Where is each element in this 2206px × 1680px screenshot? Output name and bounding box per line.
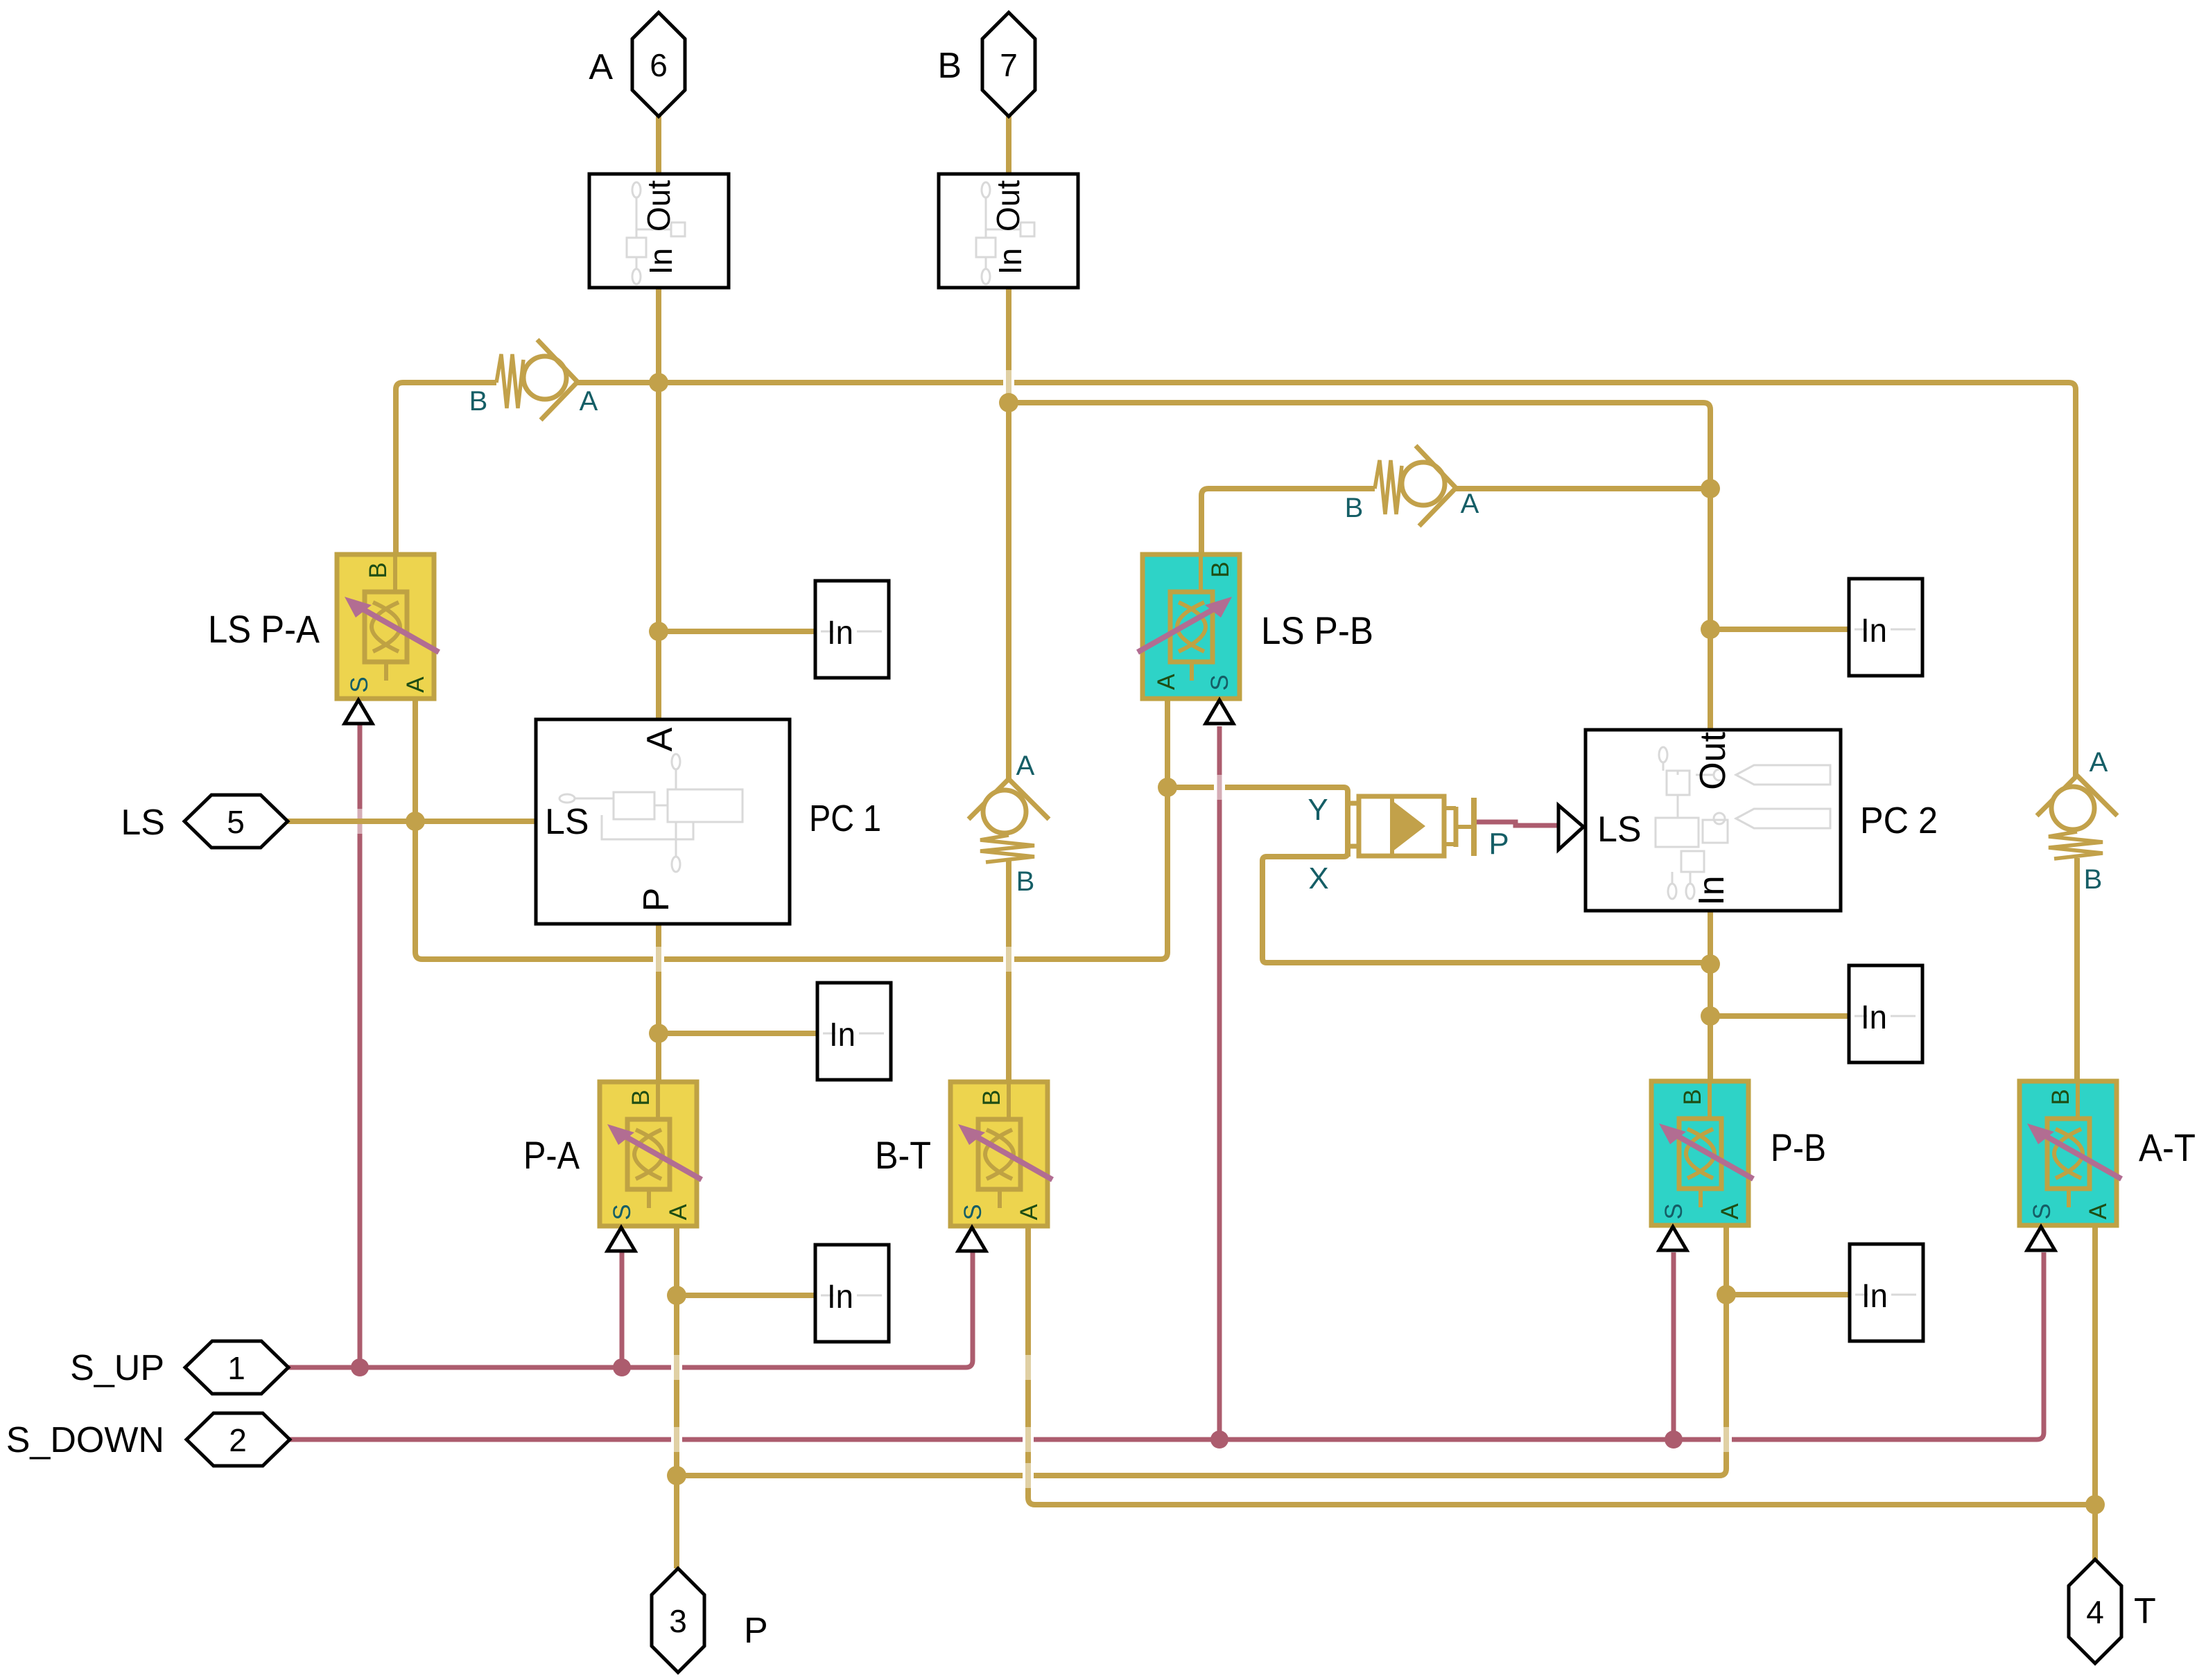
wire LS P-A B riser with corner to check valve CV1 (396, 383, 496, 554)
wire B line (sensor B down to check valve CV3) (1006, 286, 1011, 780)
junction node LS P-B A to shuttle Y (1158, 778, 1177, 797)
wire crossover fades (354, 370, 1732, 1488)
wire A-T A down to port 4 (2092, 1225, 2098, 1561)
svg-text:B: B (1207, 561, 1234, 577)
svg-text:PC 1: PC 1 (809, 798, 881, 839)
svg-text:B: B (469, 386, 488, 417)
pressure compensator PC 1 (536, 719, 881, 924)
wire node to sensor In box R2 (1710, 1013, 1849, 1019)
valve block LS P-A (208, 554, 439, 724)
wire top A rail to A-T B (right side) (574, 383, 2076, 777)
signal wire S_UP rail to B-T S (287, 1252, 973, 1367)
In box L1 (815, 581, 889, 678)
svg-text:P: P (1488, 827, 1509, 861)
junction node A line to In box L1 (649, 622, 668, 641)
junction node S_UP at P-A S riser (613, 1358, 631, 1376)
valve block P-A (523, 1082, 702, 1251)
junction node PC2 riser to In box R1 (1701, 620, 1720, 639)
port 6 (A) (589, 12, 685, 116)
svg-text:S: S (959, 1204, 987, 1220)
signal wire LS P-B S riser (1217, 726, 1222, 1441)
In box R3 (1850, 1244, 1923, 1341)
port 1 (S_UP) (70, 1341, 288, 1394)
svg-text:A-T: A-T (2139, 1126, 2196, 1169)
svg-text:A: A (1016, 751, 1035, 781)
wire node to sensor In box L2 (659, 1031, 817, 1036)
check valve CV2 (B-A, mid right) (1345, 446, 1479, 526)
svg-text:B: B (2084, 864, 2103, 895)
junction node B line to PC2 rail (999, 393, 1018, 412)
junction node P rail at port 3 riser (667, 1466, 686, 1485)
svg-text:2: 2 (229, 1422, 247, 1458)
svg-text:In: In (1861, 1278, 1888, 1315)
svg-text:A: A (1153, 674, 1180, 690)
svg-text:In: In (643, 248, 679, 274)
junction node X loop on P riser (1701, 954, 1720, 974)
sensor block A (In/Out) (589, 174, 729, 288)
svg-text:A: A (2090, 747, 2108, 778)
wire LS port 5 to PC1 LS (286, 819, 537, 824)
signal wire S_DOWN rail to A-T S (288, 1252, 2044, 1440)
wire node A to sensor In box L1 (659, 629, 815, 634)
junction node A rail / CV1 (649, 373, 668, 392)
signal wire LS P-A S riser (358, 722, 363, 1369)
svg-text:LS P-A: LS P-A (208, 607, 320, 651)
svg-text:Out: Out (1693, 732, 1733, 790)
svg-text:B: B (627, 1090, 654, 1105)
svg-text:P-B: P-B (1771, 1126, 1826, 1169)
svg-text:LS P-B: LS P-B (1261, 609, 1373, 652)
junction node S_UP at LS P-A S riser (351, 1358, 369, 1376)
valve block B-T (875, 1082, 1052, 1251)
svg-text:6: 6 (650, 47, 668, 83)
svg-text:B: B (365, 562, 392, 578)
svg-text:A: A (1717, 1203, 1744, 1220)
shuttle valve (X/Y to P) (1308, 793, 1509, 895)
svg-text:S_UP: S_UP (70, 1348, 164, 1388)
svg-text:B-T: B-T (875, 1133, 931, 1177)
port 5 (LS) (121, 795, 288, 848)
svg-text:T: T (2134, 1591, 2156, 1631)
check valve CV4 (right side) (2037, 747, 2117, 895)
wire P-A A down to port 3 (674, 1225, 679, 1568)
svg-text:B: B (1679, 1089, 1706, 1105)
svg-text:In: In (829, 1017, 856, 1053)
svg-text:A: A (580, 386, 598, 417)
svg-text:S: S (2029, 1203, 2056, 1219)
port 4 (T) (2069, 1559, 2156, 1663)
svg-text:In: In (992, 248, 1028, 274)
wire CV2 A side to node (1454, 486, 1710, 491)
junction node T rail at port 4 riser (2085, 1495, 2105, 1514)
svg-text:LS: LS (545, 802, 589, 842)
wire A line (sensor A down to PC1 port A) (656, 286, 661, 721)
PS arrowhead into PC2 LS (1558, 805, 1583, 850)
wire shuttle X loop to P riser node (1262, 852, 1710, 963)
port 3 (P) (652, 1568, 768, 1672)
svg-text:A: A (1461, 489, 1479, 519)
wire P-B A down to P rail (677, 1225, 1726, 1476)
svg-text:B: B (978, 1090, 1005, 1105)
svg-text:5: 5 (227, 804, 245, 840)
wire node to sensor In box R1 (1710, 627, 1849, 632)
svg-text:S: S (1206, 674, 1233, 690)
wire PC1 P to P-A B (656, 922, 661, 1083)
svg-text:In: In (1692, 875, 1732, 905)
svg-text:P-A: P-A (523, 1133, 580, 1177)
junction node LS rail at LS P-A A riser (406, 812, 425, 831)
wire B node rail to PC2 Out (1009, 403, 1710, 728)
pressure compensator PC 2 (1586, 730, 1938, 911)
svg-text:A: A (2085, 1203, 2112, 1220)
junction node S_DOWN at LS P-B S riser (1210, 1430, 1228, 1449)
In box R2 (1849, 965, 1922, 1062)
svg-text:In: In (1861, 613, 1887, 649)
In box L2 (817, 983, 891, 1080)
svg-text:3: 3 (669, 1603, 687, 1639)
svg-text:B: B (1016, 866, 1035, 897)
svg-text:Out: Out (641, 180, 677, 231)
port 7 (B) (937, 12, 1035, 116)
signal wire P-A S riser (620, 1252, 625, 1369)
svg-text:LS: LS (1597, 810, 1642, 850)
svg-text:In: In (827, 615, 853, 651)
valve block A-T (2020, 1081, 2196, 1250)
svg-text:S_DOWN: S_DOWN (6, 1420, 164, 1460)
junction node P-A B line to In box L2 (649, 1024, 668, 1043)
valve block P-B (1651, 1081, 1826, 1250)
svg-text:S: S (1660, 1203, 1687, 1219)
svg-text:X: X (1308, 861, 1328, 895)
junction node P-A A line to In box L3 (667, 1286, 686, 1305)
svg-text:Out: Out (990, 180, 1026, 231)
In box R1 (1849, 579, 1922, 676)
svg-text:P: P (636, 888, 677, 912)
svg-text:In: In (1861, 999, 1887, 1036)
check valve CV1 (B-A, top left) (469, 340, 598, 420)
svg-text:4: 4 (2086, 1594, 2104, 1630)
svg-text:Y: Y (1308, 793, 1328, 827)
signal wire P-B S riser (1671, 1252, 1676, 1441)
wire CV3 to B-T B (1006, 861, 1011, 1083)
svg-text:A: A (402, 676, 429, 693)
wire node to sensor In box R3 (1726, 1292, 1850, 1297)
wire B-port riser (port 7 to sensor B) (1006, 115, 1011, 175)
wire LS P-B B riser to check valve CV2 (1201, 489, 1375, 554)
port 2 (S_DOWN) (6, 1413, 290, 1466)
valve block LS P-B (1138, 554, 1373, 724)
signal wire shuttle P output (1474, 822, 1561, 825)
svg-text:S: S (609, 1204, 636, 1220)
svg-text:A: A (665, 1204, 692, 1220)
wire node to sensor In box L3 (677, 1293, 815, 1298)
check valve CV3 (on B line) (969, 751, 1049, 897)
svg-text:P: P (744, 1611, 768, 1651)
svg-text:PC 2: PC 2 (1860, 800, 1938, 841)
junction node CV2 to PC2 riser (1701, 479, 1720, 498)
junction node P-B A line to In box R3 (1717, 1285, 1736, 1304)
svg-text:S: S (346, 676, 373, 692)
svg-text:A: A (640, 727, 680, 751)
In box L3 (815, 1245, 889, 1342)
wire LS P-A A to LS P-B A (lower LS rail) (415, 697, 1167, 959)
wire LS P-B A node to shuttle Y (1167, 787, 1348, 857)
junction node P riser to In box R2 (1701, 1006, 1720, 1026)
junction node S_DOWN at P-B S riser (1665, 1430, 1683, 1449)
svg-text:B: B (937, 46, 962, 86)
sensor block B (In/Out) (939, 174, 1078, 288)
wire PC2 In down to P-B B (1708, 909, 1713, 1083)
svg-text:In: In (827, 1279, 853, 1315)
svg-text:A: A (1016, 1204, 1043, 1220)
svg-text:A: A (589, 47, 613, 87)
svg-text:LS: LS (121, 803, 165, 843)
wire A-port riser (port 6 to sensor A) (656, 115, 661, 175)
svg-text:B: B (1345, 493, 1364, 523)
wire CV4 to A-T B (2074, 858, 2080, 1083)
svg-text:7: 7 (1000, 47, 1018, 83)
svg-text:B: B (2047, 1089, 2074, 1105)
svg-text:1: 1 (227, 1350, 245, 1386)
wire B-T A down and right to T rail (1028, 1225, 2095, 1505)
